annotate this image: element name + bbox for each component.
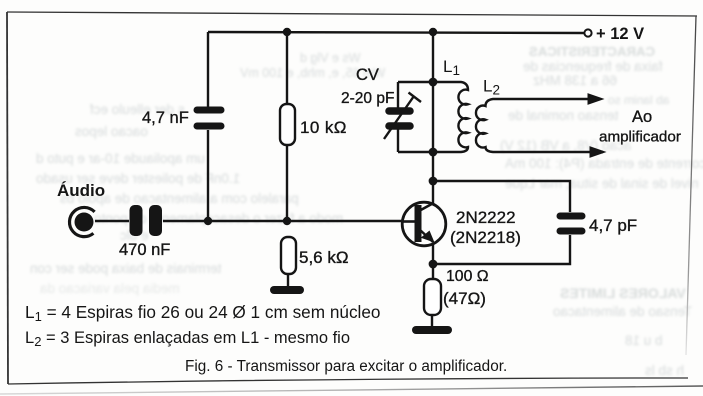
svg-text:Fig. 6 - Transmissor para exci: Fig. 6 - Transmissor para excitar o ampl…	[185, 358, 507, 375]
wire: bias branch vertical	[287, 32, 288, 287]
svg-text:(47Ω): (47Ω)	[443, 289, 486, 308]
capacitor 470nF	[130, 205, 163, 236]
svg-text:+ 12 V: + 12 V	[596, 25, 644, 43]
svg-text:terminais de baixa pode ser co: terminais de baixa pode ser con	[30, 261, 221, 276]
wire: +12V top rail	[208, 32, 584, 33]
resistor 10k	[280, 104, 295, 145]
svg-text:2N2222: 2N2222	[456, 208, 516, 227]
CV trimmer arrow	[384, 93, 421, 140]
terminal +12V	[584, 29, 591, 36]
svg-text:Ws e Vlg d: Ws e Vlg d	[300, 51, 360, 65]
svg-text:Áudio: Áudio	[57, 181, 105, 200]
junction dot tank bottom	[429, 148, 438, 157]
wire: audio base line	[95, 220, 403, 222]
wire: tank top	[398, 81, 433, 83]
ground under 5,6k	[274, 286, 300, 294]
svg-text:470 nF: 470 nF	[119, 241, 170, 259]
svg-text:corrente de entrada (P4): 100: corrente de entrada (P4): 100 mA	[505, 156, 703, 171]
transistor Q1 2N2222	[402, 202, 446, 246]
capacitor C 4,7nF	[197, 110, 221, 126]
inductor L2	[476, 99, 603, 152]
svg-text:(2N2218): (2N2218)	[450, 228, 521, 247]
svg-text:4,7 pF: 4,7 pF	[589, 216, 637, 235]
svg-text:h sb ls: h sb ls	[645, 363, 684, 378]
wire: feedback loop top	[433, 181, 570, 212]
arrow head top to amplifier	[588, 94, 603, 104]
capacitor CV plates	[389, 111, 410, 126]
wire: left branch vertical	[207, 32, 209, 221]
svg-text:CARACTERISTICAS: CARACTERISTICAS	[529, 44, 655, 59]
svg-text:b u 18: b u 18	[625, 333, 663, 348]
svg-text:L2 = 3 Espiras enlaçadas em L1: L2 = 3 Espiras enlaçadas em L1 - mesmo f…	[25, 329, 350, 349]
junction dot rail/main	[429, 28, 437, 36]
svg-text:amplificador: amplificador	[599, 129, 681, 146]
svg-text:100 Ω: 100 Ω	[446, 268, 489, 285]
page rule at bottom	[0, 386, 703, 394]
audio jack	[70, 207, 95, 236]
junction dot tank top	[429, 78, 438, 87]
svg-text:oacao lepos: oacao lepos	[75, 124, 148, 139]
resistor 5,6k	[281, 237, 296, 274]
capacitor 4,7pF	[560, 216, 582, 231]
svg-text:4,7 nF: 4,7 nF	[142, 109, 189, 127]
wire: main vertical (rail to collector)	[432, 32, 434, 204]
ground under 100R	[416, 326, 448, 334]
svg-text:2-20 pF: 2-20 pF	[341, 90, 394, 107]
svg-text:nivel de sinal de situa, mar L: nivel de sinal de situa, mar Lque	[505, 176, 699, 191]
svg-text:CV: CV	[356, 66, 379, 84]
svg-text:66 a 138 MHz: 66 a 138 MHz	[533, 73, 617, 88]
resistor 100R	[424, 279, 441, 315]
wire: emitter down	[432, 243, 433, 326]
svg-text:10 kΩ: 10 kΩ	[300, 118, 347, 137]
svg-text:VALORES LIMITES: VALORES LIMITES	[560, 285, 686, 301]
junction dot emitter	[429, 260, 438, 269]
junction dot rail/bias	[283, 28, 291, 36]
svg-text:um apoliaude 10-ar e puto d: um apoliaude 10-ar e puto d	[36, 151, 205, 166]
svg-text:5,6 kΩ: 5,6 kΩ	[299, 248, 349, 267]
svg-text:media pela variacao da: media pela variacao da	[40, 281, 180, 296]
junction dot base/bias branch	[283, 217, 291, 225]
junction dot collector	[429, 177, 438, 186]
svg-text:faixa de frequencias de: faixa de frequencias de	[523, 59, 663, 74]
svg-text:Tensao de alimentacao: Tensao de alimentacao	[553, 304, 692, 319]
svg-text:ab lanim so: ab lanim so	[608, 93, 670, 107]
svg-text:L2: L2	[483, 77, 500, 98]
arrow head bottom to amplifier	[590, 147, 605, 157]
wire: tank bottom	[398, 151, 433, 153]
svg-text:tensao nominal de: tensao nominal de	[508, 108, 618, 123]
inductor L1	[433, 82, 468, 152]
wire: feedback loop bottom	[433, 235, 570, 264]
svg-text:L1 = 4 Espiras fio 26 ou 24 Ø: L1 = 4 Espiras fio 26 ou 24 Ø 1 cm sem n…	[25, 302, 380, 324]
svg-text:Ao: Ao	[632, 108, 652, 126]
wire: tank left vertical	[397, 82, 399, 152]
svg-text:L1: L1	[443, 57, 460, 78]
junction dot base/left branch	[204, 217, 212, 225]
